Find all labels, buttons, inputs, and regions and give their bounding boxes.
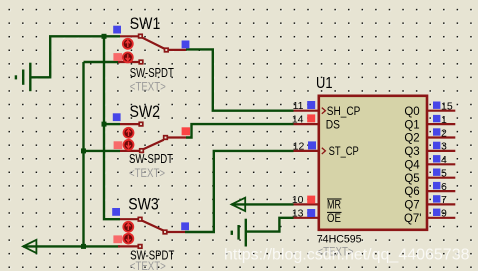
svg-text:SW1: SW1 [130, 14, 161, 33]
svg-text:<TEXT>: <TEXT> [130, 82, 166, 94]
svg-text:7: 7 [441, 194, 447, 206]
svg-text:MR: MR [327, 200, 341, 212]
svg-text:Q6: Q6 [404, 186, 419, 198]
svg-text:10: 10 [292, 194, 304, 206]
svg-text:6: 6 [441, 181, 447, 193]
svg-text:Q1: Q1 [404, 119, 419, 131]
svg-text:ST_CP: ST_CP [329, 146, 359, 158]
svg-text:Q2: Q2 [404, 133, 419, 145]
svg-text:SW-SPDT: SW-SPDT [129, 151, 173, 166]
svg-text:11: 11 [293, 100, 304, 112]
svg-text:SW2: SW2 [130, 102, 161, 121]
svg-text:Q3: Q3 [404, 146, 419, 158]
svg-text:74HC595: 74HC595 [317, 233, 362, 245]
svg-text:4: 4 [441, 154, 447, 166]
svg-text:SW3: SW3 [128, 195, 159, 214]
svg-text:<TEXT>: <TEXT> [129, 168, 165, 180]
svg-text:https://blog.csdn.net/qq_44065: https://blog.csdn.net/qq_44065738 [224, 247, 470, 264]
svg-text:Q7: Q7 [404, 200, 419, 212]
svg-text:5: 5 [441, 168, 447, 180]
svg-text:1: 1 [441, 114, 447, 126]
svg-text:Q0: Q0 [404, 106, 419, 118]
svg-text:Q5: Q5 [404, 173, 419, 185]
svg-text:U1: U1 [316, 75, 333, 92]
svg-text:9: 9 [441, 208, 447, 220]
svg-text:15: 15 [441, 101, 453, 113]
svg-text:<TEXT>: <TEXT> [130, 261, 166, 271]
svg-text:Q4: Q4 [404, 160, 420, 172]
svg-text:Q7': Q7' [404, 213, 422, 225]
svg-text:OE: OE [327, 213, 341, 225]
svg-text:12: 12 [293, 140, 305, 152]
svg-text:SH_CP: SH_CP [327, 106, 361, 118]
svg-text:2: 2 [441, 127, 447, 139]
svg-text:SW-SPDT: SW-SPDT [130, 65, 174, 80]
svg-text:14: 14 [292, 114, 304, 126]
svg-text:3: 3 [441, 141, 447, 153]
svg-text:13: 13 [292, 207, 304, 219]
svg-text:DS: DS [326, 119, 340, 131]
